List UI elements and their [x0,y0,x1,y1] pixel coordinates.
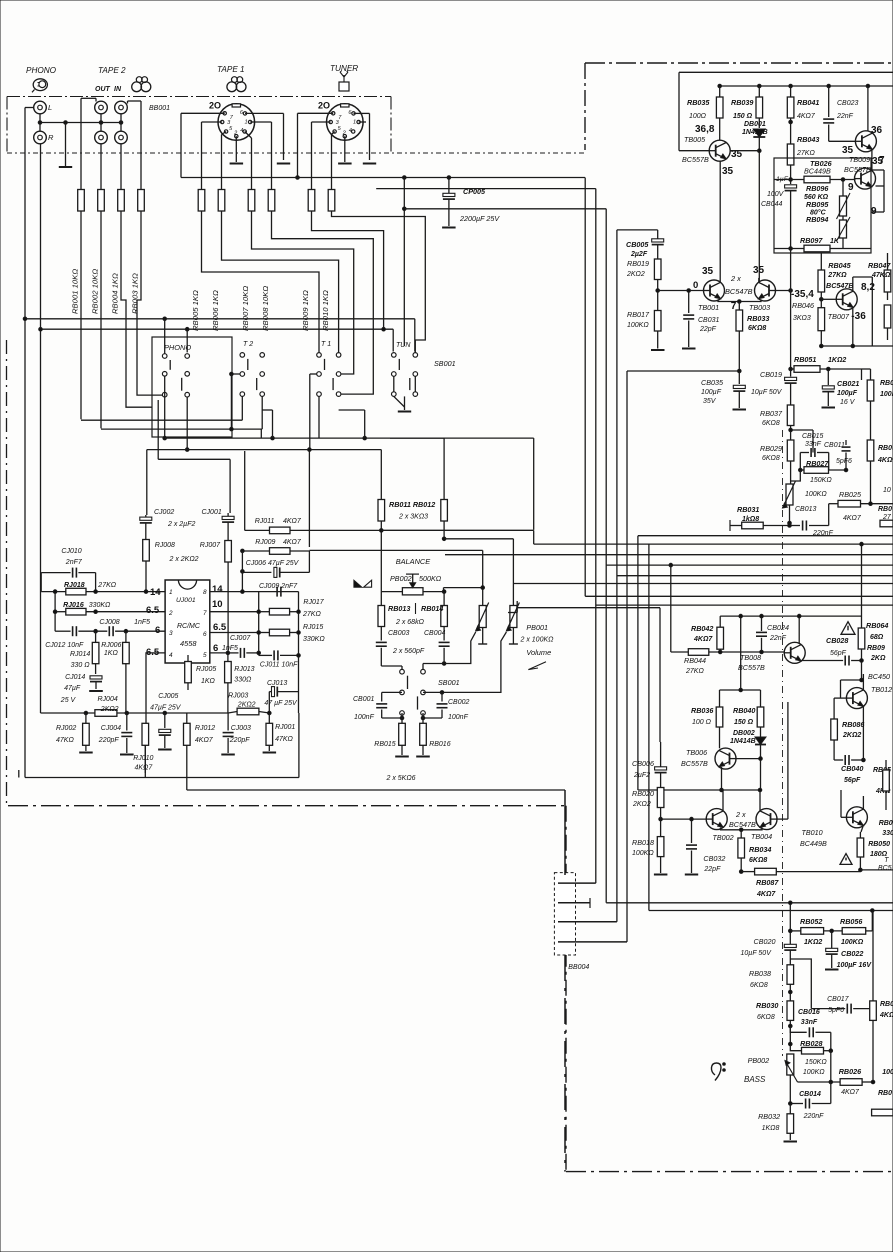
wire rail rj003 seg [228,712,237,714]
wire RB007 to T1 row2 [252,211,354,374]
wire TB003 base right [775,290,791,292]
wire TB002 base [661,818,707,820]
resistor RB010 1KΩ [328,190,335,212]
wire main supply rail [181,177,585,179]
node TB006 out [720,788,724,792]
svg-text:2KΩ2: 2KΩ2 [237,702,256,709]
capacitor CJ003 220pF [227,713,229,731]
svg-text:RB041: RB041 [797,98,819,107]
switch PHONO contacts [162,354,167,359]
wire bus550 to pot1 [309,549,482,551]
node CB024 bottom [760,650,764,654]
node CJ006 left [241,570,245,574]
svg-text:1KΩ8: 1KΩ8 [762,1125,780,1132]
svg-text:-35,4: -35,4 [791,289,814,300]
resistor RB006 1KΩ [218,190,225,212]
svg-text:RJ003: RJ003 [228,693,248,700]
bus row thick y607 [517,607,660,609]
svg-text:10µF 50V: 10µF 50V [751,389,783,396]
resistor RB038 6K8 [789,962,791,965]
wire CJ006 bracket [308,551,310,572]
switch TUN ground [403,178,405,347]
wire TB005 base [679,150,709,152]
svg-text:100nF: 100nF [354,714,375,721]
svg-text:56pF: 56pF [844,777,861,784]
node rail RB041 [789,84,793,88]
bass clef [711,1063,721,1081]
svg-text:4KΩ7: 4KΩ7 [135,765,154,772]
svg-text:RB0: RB0 [880,1001,893,1008]
resistor RB045 27K [818,270,825,292]
resistor RB032 1K8 [789,1104,791,1114]
transistor TB008 BC557B [784,642,805,663]
wire center col top [789,903,791,944]
wire tape2 in down [120,144,122,190]
svg-text:220pF: 220pF [229,737,251,744]
wire RB025 left leg [828,504,830,526]
svg-text:27KΩ: 27KΩ [685,668,704,675]
svg-text:CJ012 10nF: CJ012 10nF [45,642,84,649]
wire tape1 pin7 feed [181,112,225,114]
svg-text:BC449B: BC449B [804,167,831,176]
svg-text:4: 4 [240,128,243,134]
capacitor CJ004 220pF [126,713,128,731]
wire RB003 hook to IN jack [140,101,142,190]
svg-text:10µF 50V: 10µF 50V [741,950,773,957]
svg-text:RB010 1KΩ: RB010 1KΩ [321,290,330,331]
svg-text:1N414B: 1N414B [742,129,768,136]
wire bus row y438 [165,437,534,439]
svg-text:RB056: RB056 [840,917,863,926]
transistor TB010 right [846,807,867,828]
svg-text:4KΩ7: 4KΩ7 [797,113,816,120]
capacitor CB013 220nF [790,525,801,527]
wire TB012 collector [862,707,864,746]
node RB011 bus [380,529,384,533]
svg-text:2 x 560pF: 2 x 560pF [392,648,425,655]
node TB001 base [656,289,660,293]
node RB034 bottom [739,870,743,874]
svg-text:TB007: TB007 [828,312,850,321]
resistor RJ014 330R [95,631,97,642]
resistor RB001 10KΩ [78,190,85,212]
resistor RB094 [840,220,847,238]
svg-text:RB007 10KΩ: RB007 10KΩ [241,286,250,331]
wire RB010 to TUN [332,211,426,353]
svg-text:RB029: RB029 [760,444,782,453]
wire CJ010 legs [40,573,42,592]
svg-text:CB016: CB016 [798,1009,820,1016]
wire TB008 emitter [798,616,800,644]
volume pot PB001a [479,606,486,628]
svg-text:RJ018: RJ018 [64,582,85,589]
svg-text:CJ002: CJ002 [154,509,174,516]
wire CJ002 feed [146,450,148,515]
svg-text:CB006: CB006 [632,759,654,768]
node TB002 base [659,817,663,821]
svg-text:36: 36 [871,125,883,136]
resistor RB051 1K2 inline [791,368,794,370]
svg-text:47KΩ: 47KΩ [56,737,74,744]
resistor RB031 1K8 inline [730,525,742,527]
lower rail y910 [649,910,893,912]
svg-text:35: 35 [722,166,734,177]
node CB013 left [788,524,792,528]
resistor RJ017 27K inline [259,611,270,613]
diode DB002 1N4148 [755,737,766,745]
capacitor CB015 33nF [800,452,809,454]
wire TB009 collector [871,150,873,171]
svg-text:OUT: OUT [95,86,111,93]
svg-text:1KΩ: 1KΩ [104,650,119,657]
svg-text:RJ004: RJ004 [98,696,118,703]
node RB028 right [829,1049,833,1053]
svg-text:CB019: CB019 [760,370,782,379]
svg-text:RB052: RB052 [800,917,822,926]
svg-text:Volume: Volume [526,648,551,657]
svg-text:CB005: CB005 [626,240,649,249]
BB004 connector box [554,873,575,955]
svg-text:1: 1 [353,120,356,126]
svg-text:TB008: TB008 [740,653,761,662]
wire RB027 frame left [799,453,801,471]
node CB016 top [789,1024,793,1028]
svg-text:CB031: CB031 [698,317,720,324]
svg-text:BC547B: BC547B [729,820,756,829]
bus wire v1 supply [584,178,586,597]
svg-text:500KΩ: 500KΩ [419,574,442,583]
svg-text:9: 9 [871,206,877,217]
bus wire v6 to TB002 rail [637,536,639,790]
node jack bus 2 [64,121,68,125]
node supply-tun [403,176,407,180]
svg-text:2KΩ: 2KΩ [870,655,886,662]
wire RB056 right up [871,911,873,931]
capacitor CJ011 10nF inline [259,654,272,656]
capacitor CJ006 47uF [242,571,271,573]
capacitor CP005 2200uF [448,178,450,194]
svg-text:10: 10 [212,599,223,610]
node RB052-56 [830,929,834,933]
svg-text:RB096: RB096 [806,184,829,193]
wire TB009 base [829,140,856,142]
svg-text:6KΩ8: 6KΩ8 [750,982,768,989]
DIN connector TUNER BB003 [327,104,364,141]
transistor TB026 BC449B [855,168,876,189]
svg-text:14: 14 [212,584,223,595]
capacitor CB024 22nF [761,616,763,631]
svg-text:RB034: RB034 [749,845,771,854]
bottom-right dash-dot border [566,1171,893,1173]
bus row y565 [606,564,893,566]
svg-text:RB044: RB044 [684,656,706,665]
capacitor CJ008 1nF5 inline [108,626,110,636]
transistor TB005 BC557B [709,140,730,161]
svg-text:BB004: BB004 [568,964,589,971]
resistor RB028 150K inline [790,1044,801,1051]
svg-text:SB001: SB001 [434,359,456,368]
resistor RB054 v [883,770,890,791]
wire RJ012 return [187,789,565,791]
resistor RB035 100R [719,86,721,97]
svg-text:CJ008: CJ008 [99,619,119,626]
capacitor CJ005 47uF [164,713,166,728]
resistor RJ007 2K2 [225,541,232,563]
bus wire v3 [605,209,607,903]
svg-text:BC557B: BC557B [682,155,709,164]
svg-text:CJ009 2nF7: CJ009 2nF7 [259,583,298,590]
capacitor CB019 10uF [785,377,797,380]
wire T1 row2 out [310,373,317,375]
wire CJ001 feed [229,459,231,513]
svg-text:CB021: CB021 [837,379,859,388]
bass wiper row [798,1081,841,1083]
RCA jack tape2 in upper [115,101,128,114]
svg-text:33nF: 33nF [801,1019,818,1026]
bus row y554 [445,554,893,556]
switch T2 contacts [240,353,245,358]
resistor RB026 4K7 inline [840,1079,862,1086]
svg-text:68Ω: 68Ω [870,634,884,641]
node TB008 emitter rail [797,614,801,618]
cassette icon tape1 [232,77,238,83]
resistor RB030 6K8 [787,1001,794,1021]
node RB044-RB042 [718,650,722,654]
wire tape1 pin5 down [222,132,227,135]
svg-text:T 1: T 1 [321,341,331,348]
svg-text:BC557B: BC557B [738,663,765,672]
right block dash-dot left edge [584,63,586,150]
svg-text:2 x 2KΩ2: 2 x 2KΩ2 [169,556,199,563]
svg-text:PB002: PB002 [390,574,412,583]
resistor RB025 4K7 inline [829,503,838,505]
node CB044 bottom [789,247,793,251]
svg-text:RB001 10KΩ: RB001 10KΩ [71,269,80,314]
wire TB006 top rail [720,689,761,691]
wire TB010 base [841,816,847,818]
wire TB008 top rail [720,615,861,617]
svg-text:CJ007: CJ007 [230,635,251,642]
svg-text:8,2: 8,2 [861,282,875,293]
wire TB007 emitter [852,307,854,346]
resistor RB087 4K7 inline [741,871,754,873]
svg-text:RB0: RB0 [880,380,893,387]
bus feed net3 [403,207,407,211]
resistor RBxx right col [870,1001,877,1021]
node pot bottom [788,521,792,525]
resistor RJ010 4K7 [142,723,149,745]
op-amp UJ001 4558 body [165,580,210,663]
wire T1 row3 out [318,396,320,438]
wire RB003 row [137,211,162,395]
node RB051 left [789,367,793,371]
wire tape1 pin4 down [245,132,252,139]
svg-text:RB016: RB016 [429,741,451,748]
wire feedback right riser [298,592,300,713]
svg-text:TB012: TB012 [871,685,892,694]
transistor TB004 BC547B [756,809,777,830]
wire tape2 jacks stems [100,114,102,131]
transistor TB009 BC557B [855,131,876,152]
channel separator dashed line [782,430,784,1056]
resistor RB041 4K7 [790,86,792,97]
svg-text:IN: IN [114,86,122,93]
svg-text:1nF5: 1nF5 [134,619,150,626]
svg-text:47KΩ: 47KΩ [275,736,293,743]
resistor RJ011 4K7 inline [245,529,270,531]
svg-text:CB011: CB011 [824,442,845,449]
svg-text:27KΩ: 27KΩ [97,582,116,589]
svg-text:PHONO: PHONO [26,66,57,75]
svg-text:T 2: T 2 [243,341,253,348]
resistor RB017 100K [654,311,661,332]
bus row y535 [638,535,893,537]
svg-text:L: L [48,103,52,112]
wire tape1 pin6 to right [245,112,284,114]
BB004 pin stub 1 [558,882,596,884]
svg-text:RB042: RB042 [691,624,713,633]
resistor RB029 6K8 [787,440,794,461]
svg-text:22pF: 22pF [703,866,721,873]
capacitor CB017 5pF6 [811,1008,845,1010]
wire RJ011 left up [244,451,246,530]
svg-text:RB0: RB0 [878,506,892,513]
wire RB004 row [121,211,152,407]
resistor RJ018 27K inline [41,591,66,593]
capacitor CB002 100nF [423,691,442,693]
svg-text:RB095: RB095 [806,200,829,209]
svg-text:27KΩ: 27KΩ [796,150,815,157]
svg-text:RB0: RB0 [878,1090,892,1097]
resistor RJ012 4K7 [186,713,188,723]
node RB041-043 [789,120,793,124]
svg-text:RB033: RB033 [747,314,769,323]
svg-text:RJ007: RJ007 [200,542,221,549]
svg-text:16 V: 16 V [840,399,856,406]
bus row y575 [617,575,893,577]
svg-text:2KΩ2: 2KΩ2 [100,706,119,713]
node RB064 bus [860,659,864,663]
BB004 pin stub 4 [558,941,627,943]
ground tuner right [363,163,376,165]
svg-text:RJ005: RJ005 [196,666,216,673]
svg-text:RB017: RB017 [627,310,650,319]
wire T1-right drop [364,410,366,438]
resistor RB042 4K7 [719,616,721,627]
svg-text:CB001: CB001 [353,696,375,703]
svg-text:1nF5: 1nF5 [222,645,238,652]
svg-text:RB035: RB035 [687,98,710,107]
wire bus438 to volume [533,438,535,530]
svg-text:RB025: RB025 [839,490,862,499]
svg-text:CJ010: CJ010 [61,548,81,555]
resistor RB086 2K2 v [831,719,838,740]
node RB012 bus [442,537,446,541]
svg-text:RJ017: RJ017 [303,599,324,606]
node pin2 x95 [94,610,98,614]
svg-text:35: 35 [702,266,714,277]
resistor RB047 47K [884,270,891,292]
top-right dash-dot border [585,62,893,64]
svg-text:4KΩ7: 4KΩ7 [843,515,862,522]
svg-text:2nF7: 2nF7 [65,559,83,566]
svg-text:4: 4 [349,128,352,134]
svg-text:220nF: 220nF [803,1113,825,1120]
wire T2 row2 out [231,373,240,375]
RB031 input tick [729,520,731,531]
BB004 feed wire [564,790,566,875]
capacitor CJ001 2uF2 [222,516,234,519]
loudness triangles [354,580,362,587]
svg-text:RB05: RB05 [878,445,893,452]
svg-text:CB028: CB028 [826,636,848,645]
resistor RB014 68K [443,592,445,606]
svg-text:TB003: TB003 [749,303,770,312]
svg-text:RB019: RB019 [627,259,649,268]
wire phono col feeds [164,319,166,354]
svg-text:1K: 1K [830,238,840,245]
svg-text:RB040: RB040 [733,706,755,715]
svg-text:RB009 1KΩ: RB009 1KΩ [301,290,310,331]
svg-text:BC547B: BC547B [725,287,753,296]
RCA jack tape2 out lower [95,131,108,144]
svg-text:CJ004: CJ004 [101,725,121,732]
wire bus row y450 [147,449,381,451]
svg-text:22nF: 22nF [836,113,854,120]
right block outline [679,71,893,73]
svg-text:RB032: RB032 [758,1112,780,1121]
node rail TB009 [866,84,870,88]
svg-text:47µF 25V: 47µF 25V [150,705,182,712]
volume arrow mark [528,662,546,670]
svg-text:4KΩ: 4KΩ [877,457,893,464]
wire RB011 feed drop [380,450,382,499]
bass pot PB002 100K [787,1054,794,1075]
svg-text:2O: 2O [318,101,330,111]
wire phono R stem [39,123,41,132]
transistor TB002 BC547B [706,809,727,830]
input box dashed right edge [390,97,392,154]
svg-text:150KΩ: 150KΩ [805,1059,827,1066]
node RB044 feed [669,563,673,567]
warning triangle 1 [841,622,855,635]
svg-text:6KΩ8: 6KΩ8 [762,455,780,462]
resistor RB015 5K6 [401,713,403,723]
svg-text:1KΩ2: 1KΩ2 [804,939,822,946]
node CB032 top [690,817,694,821]
svg-text:RB097: RB097 [800,236,823,245]
wire CJ013 left leg [268,692,270,713]
svg-text:100µF: 100µF [701,389,722,396]
wire pin8 [210,591,299,593]
svg-text:CB032: CB032 [703,854,725,863]
wire TB004 collector [759,790,761,811]
BB004 pin stub 2 [558,902,590,904]
svg-text:TB001: TB001 [698,303,719,312]
node RB027 L [799,468,803,472]
wire pin4 [146,653,165,723]
svg-text:36,8: 36,8 [695,124,715,135]
svg-text:2O: 2O [209,101,221,111]
resistor RB008 10KΩ [268,190,275,212]
resistor RB002 10KΩ [98,190,105,212]
wire jog 429-438 [260,429,262,438]
wire balance ends [381,591,402,593]
capacitor CB005 2u2F [657,230,659,239]
wire tuner pin3 down [312,121,331,123]
svg-text:5pF6: 5pF6 [828,1007,844,1014]
wire pot1 tap [444,632,476,664]
